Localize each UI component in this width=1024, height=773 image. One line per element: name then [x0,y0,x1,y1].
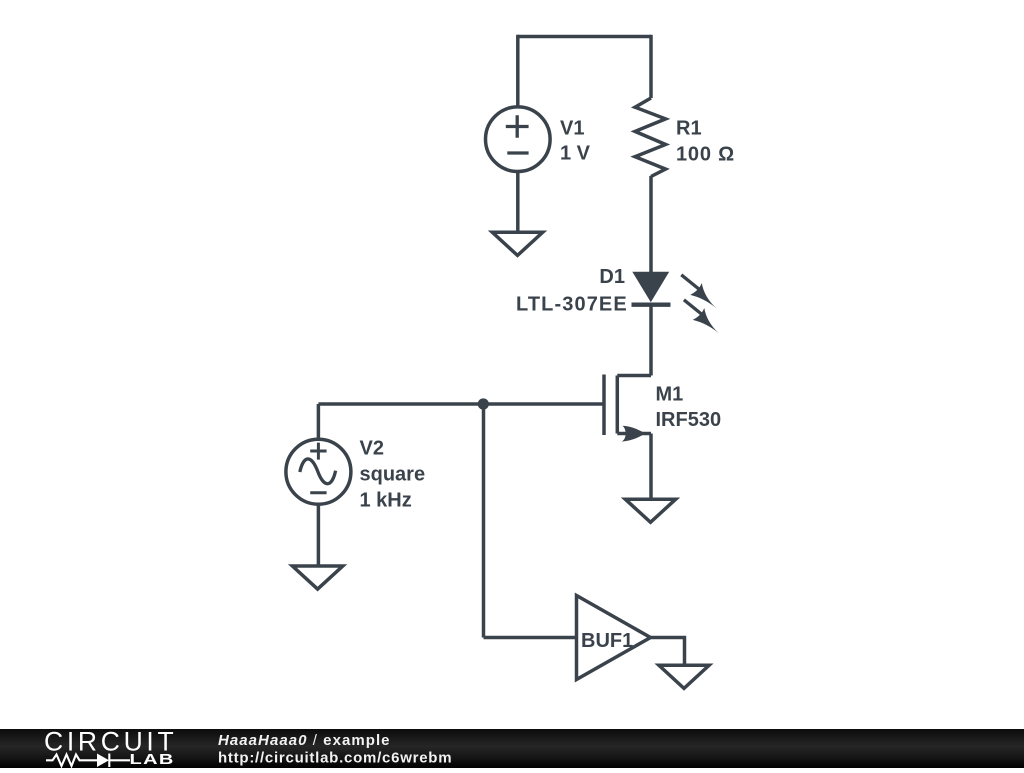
svg-text:LAB: LAB [130,751,175,768]
wire V1 to ground [516,171,520,233]
logo resistor-diode glyph [46,754,130,768]
wire BUF1 output [651,638,685,666]
wire V2 to ground [317,504,321,566]
svg-text:M1: M1 [656,384,684,406]
footer bar [0,729,1024,768]
wire V2 top [317,404,321,440]
svg-text:100 Ω: 100 Ω [676,144,735,166]
svg-text:1 kHz: 1 kHz [360,490,412,512]
svg-text:1 V: 1 V [560,142,591,164]
svg-text:D1: D1 [599,266,625,288]
wire to BUF1 input [484,636,577,640]
wire R1 to D1 [649,176,653,272]
ground V1 [492,232,542,255]
svg-text:BUF1: BUF1 [581,630,633,652]
svg-text:HaaaHaaa0 / example: HaaaHaaa0 / example [218,732,391,749]
LED D1 [632,272,719,334]
wire D1 to M1 drain [649,305,653,376]
svg-text:V1: V1 [560,118,584,140]
ground M1 [625,499,675,522]
svg-text:http://circuitlab.com/c6wrebm: http://circuitlab.com/c6wrebm [218,750,452,767]
wire R1 top stub [649,35,653,98]
transistor M1 [604,375,651,442]
voltage source V2 [286,439,351,504]
voltage source V1 [486,107,551,172]
op-amp BUF1 [577,596,651,680]
wire junction down [482,404,486,638]
ground BUF1 [659,665,709,688]
node junction [478,398,489,409]
svg-text:LTL-307EE: LTL-307EE [516,294,628,316]
wire gate net [318,402,604,406]
resistor R1 [635,98,666,177]
svg-text:IRF530: IRF530 [656,409,722,431]
svg-text:V2: V2 [360,438,384,460]
svg-text:R1: R1 [676,118,702,140]
wire M1 source down [649,434,653,500]
ground V2 [292,566,342,589]
svg-text:square: square [360,464,426,486]
wire V1 top stub [516,35,520,108]
wire top rail [518,35,651,39]
